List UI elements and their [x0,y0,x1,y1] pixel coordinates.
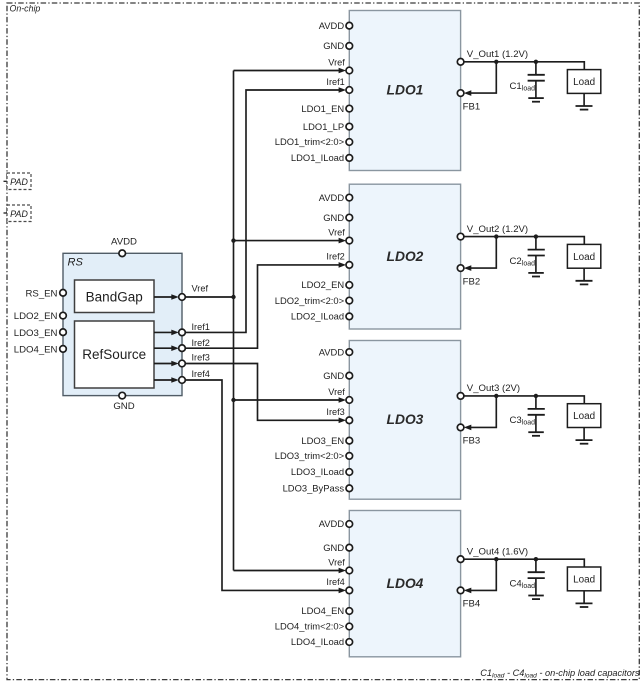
capacitor C2load [535,237,537,250]
svg-text:V_Out1 (1.2V): V_Out1 (1.2V) [467,49,528,60]
pin Vref of LDO3 [346,397,353,404]
pin LDO4_trim&lt;2:0&gt; of LDO4 [346,623,353,630]
PAD pad1 [7,173,31,190]
wire Iref3 from RS to LDO3 [185,364,341,421]
ground of Load of LDO2 [583,268,585,281]
load block Load of LDO3 [567,404,600,428]
svg-text:FB4: FB4 [463,599,481,610]
svg-text:LDO4: LDO4 [387,576,424,591]
ground of Load of LDO4 [583,591,585,604]
output pin V_Out2 of LDO2 [457,233,464,240]
pin Iref2 of LDO2 [346,262,353,269]
svg-text:GND: GND [323,370,344,381]
input pin RS_EN of RS [60,290,67,297]
capacitor C3load [535,396,537,409]
svg-text:FB2: FB2 [463,276,481,287]
wire V_Out3 output net [464,396,585,404]
svg-text:Iref2: Iref2 [326,252,344,262]
junction capacitor tap LDO2 [534,234,538,238]
pin Iref1 of LDO1 [346,87,353,94]
svg-text:AVDD: AVDD [319,20,345,31]
svg-text:LDO3_ByPass: LDO3_ByPass [283,483,345,494]
svg-text:LDO1: LDO1 [387,83,424,98]
pin LDO1_ILoad of LDO1 [346,155,353,162]
svg-text:FB3: FB3 [463,436,481,447]
junction Vref branch LDO2 [231,238,235,242]
junction capacitor tap LDO3 [534,394,538,398]
svg-text:Vref: Vref [328,557,345,567]
pin AVDD of LDO1 [346,22,353,29]
svg-text:LDO3_EN: LDO3_EN [301,435,344,446]
wire Vref branch to LDO4 [234,570,342,572]
svg-text:LDO2: LDO2 [387,249,424,264]
wire Vref vertical trunk [233,71,235,571]
pin GND of LDO4 [346,544,353,551]
wire RefSource output to Iref3 pin [154,363,173,365]
svg-text:LDO1_trim<2:0>: LDO1_trim<2:0> [275,136,345,147]
pin LDO3_ILoad of LDO3 [346,469,353,476]
wire Iref1 from RS to LDO1 [185,90,341,332]
pin AVDD of LDO4 [346,521,353,528]
wire V_Out1 output net [464,62,585,70]
regulator block LDO3 [349,341,460,500]
output pin Iref3 of RS [179,360,186,367]
svg-text:LDO3_trim<2:0>: LDO3_trim<2:0> [275,450,345,461]
capacitor C4load [535,559,537,572]
pin LDO2_trim&lt;2:0&gt; of LDO2 [346,297,353,304]
pin Vref of LDO1 [346,67,353,74]
svg-text:GND: GND [323,40,344,51]
wire feedback to FB3 [469,396,497,428]
ground of capacitor C3load [528,431,544,433]
svg-text:AVDD: AVDD [319,192,345,203]
svg-text:LDO3_EN: LDO3_EN [14,328,58,339]
wire Vref branch to LDO2 [234,240,342,242]
svg-text:Vref: Vref [328,57,345,67]
svg-text:PAD: PAD [10,177,28,187]
wire Vref branch to LDO3 [234,399,342,401]
svg-text:C1load - C4load - on-chip load: C1load - C4load - on-chip load capacitor… [480,668,640,680]
junction feedback tap LDO4 [494,557,498,561]
svg-text:RS_EN: RS_EN [26,288,58,299]
ground of Load of LDO1 [583,93,585,106]
regulator block LDO1 [349,11,460,171]
ground of capacitor C1load [528,97,544,99]
output pin V_Out3 of LDO3 [457,393,464,400]
svg-text:Vref: Vref [328,387,345,397]
svg-text:V_Out3 (2V): V_Out3 (2V) [467,383,520,394]
pin Vref of LDO2 [346,237,353,244]
svg-text:LDO4_EN: LDO4_EN [14,345,58,356]
ground pin GND of RS [119,392,126,399]
pin LDO3_EN of LDO3 [346,437,353,444]
svg-text:Iref1: Iref1 [326,77,344,87]
pin Iref4 of LDO4 [346,587,353,594]
svg-text:LDO1_EN: LDO1_EN [301,103,344,114]
feedback pin FB3 of LDO3 [457,424,464,431]
svg-text:LDO2_ILoad: LDO2_ILoad [291,311,344,322]
wire V_Out2 output net [464,237,585,245]
svg-text:LDO4_ILoad: LDO4_ILoad [291,636,344,647]
svg-text:Load: Load [573,252,595,263]
pin GND of LDO3 [346,372,353,379]
junction feedback tap LDO1 [494,60,498,64]
svg-text:Iref2: Iref2 [192,338,210,348]
wire RefSource output to Iref2 pin [154,347,173,349]
svg-text:LDO2_trim<2:0>: LDO2_trim<2:0> [275,295,345,306]
svg-text:PAD: PAD [10,209,28,219]
power pin AVDD of RS [119,250,126,257]
pin LDO1_LP of LDO1 [346,123,353,130]
svg-text:GND: GND [323,212,344,223]
capacitor C1load [535,62,537,75]
pin LDO3_ByPass of LDO3 [346,485,353,492]
svg-text:Iref4: Iref4 [326,577,344,587]
pin LDO2_EN of LDO2 [346,282,353,289]
input pin LDO3_EN of RS [60,329,67,336]
svg-text:Vref: Vref [192,284,209,294]
regulator block LDO4 [349,511,460,657]
svg-text:BandGap: BandGap [86,290,143,305]
junction Vref trunk / RS feed [231,295,235,299]
svg-text:Vref: Vref [328,227,345,237]
ground of capacitor C2load [528,272,544,274]
pin GND of LDO2 [346,214,353,221]
PAD pad1 stub wire [4,180,8,182]
svg-text:FB1: FB1 [463,101,481,112]
ground of Load of LDO3 [583,428,585,441]
feedback pin FB1 of LDO1 [457,90,464,97]
output pin Iref1 of RS [179,329,186,336]
svg-text:RS: RS [68,257,84,269]
load block Load of LDO2 [567,244,600,268]
svg-text:Load: Load [573,574,595,585]
wire Vref branch to LDO1 [234,70,342,72]
output pin Iref4 of RS [179,377,186,384]
output pin Vref of RS [179,294,186,301]
pin LDO4_EN of LDO4 [346,608,353,615]
input pin LDO4_EN of RS [60,346,67,353]
regulator block LDO2 [349,184,460,329]
wire RefSource output to Iref1 pin [154,331,173,333]
svg-text:V_Out2 (1.2V): V_Out2 (1.2V) [467,224,528,235]
svg-text:LDO1_LP: LDO1_LP [303,121,344,132]
svg-text:V_Out4 (1.6V): V_Out4 (1.6V) [467,546,528,557]
wire feedback to FB4 [469,559,497,590]
svg-text:LDO1_ILoad: LDO1_ILoad [291,152,344,163]
svg-text:LDO3: LDO3 [387,412,424,427]
svg-text:GND: GND [323,542,344,553]
svg-text:Iref3: Iref3 [192,353,210,363]
svg-text:Load: Load [573,411,595,422]
input pin LDO2_EN of RS [60,312,67,319]
output pin Iref2 of RS [179,345,186,352]
pin Iref3 of LDO3 [346,417,353,424]
svg-text:Iref3: Iref3 [326,407,344,417]
load block Load of LDO4 [567,567,600,591]
junction capacitor tap LDO4 [534,557,538,561]
wire feedback to FB1 [469,62,497,93]
pin AVDD of LDO3 [346,349,353,356]
svg-text:On-chip: On-chip [10,3,41,13]
output pin V_Out4 of LDO4 [457,556,464,563]
svg-text:GND: GND [113,401,134,412]
svg-text:AVDD: AVDD [111,237,137,248]
svg-text:LDO2_EN: LDO2_EN [14,311,58,322]
pin Vref of LDO4 [346,567,353,574]
wire Vref from RS to trunk [185,296,233,298]
block BandGap U-BG [75,280,155,313]
pin LDO2_ILoad of LDO2 [346,313,353,320]
wire BandGap output to Vref pin [154,296,173,298]
svg-text:AVDD: AVDD [319,346,345,357]
svg-text:AVDD: AVDD [319,518,345,529]
reference-source block RS [63,253,182,395]
wire RefSource output to Iref4 pin [154,379,173,381]
feedback pin FB4 of LDO4 [457,587,464,594]
pin LDO1_trim&lt;2:0&gt; of LDO1 [346,139,353,146]
PAD pad2 stub wire [4,212,8,214]
feedback pin FB2 of LDO2 [457,265,464,272]
svg-text:Load: Load [573,77,595,88]
junction feedback tap LDO2 [494,234,498,238]
wire V_Out4 output net [464,559,585,567]
pin LDO4_ILoad of LDO4 [346,639,353,646]
svg-text:LDO4_EN: LDO4_EN [301,605,344,616]
junction Vref branch LDO3 [231,398,235,402]
svg-text:RefSource: RefSource [82,347,146,362]
pin LDO1_EN of LDO1 [346,105,353,112]
ground of capacitor C4load [528,595,544,597]
svg-text:LDO2_EN: LDO2_EN [301,279,344,290]
junction capacitor tap LDO1 [534,60,538,64]
block RefSource U-RS [75,321,155,388]
svg-text:LDO3_ILoad: LDO3_ILoad [291,466,344,477]
svg-text:Iref4: Iref4 [192,369,210,379]
wire Iref4 from RS to LDO4 [185,380,341,590]
PAD pad2 [7,205,31,222]
pin LDO3_trim&lt;2:0&gt; of LDO3 [346,453,353,460]
svg-text:LDO4_trim<2:0>: LDO4_trim<2:0> [275,621,345,632]
load block Load of LDO1 [567,70,600,94]
wire Iref2 from RS to LDO2 [185,265,341,348]
pin GND of LDO1 [346,43,353,50]
output pin V_Out1 of LDO1 [457,59,464,66]
svg-text:Iref1: Iref1 [192,322,210,332]
junction feedback tap LDO3 [494,394,498,398]
wire feedback to FB2 [469,237,497,269]
pin AVDD of LDO2 [346,194,353,201]
